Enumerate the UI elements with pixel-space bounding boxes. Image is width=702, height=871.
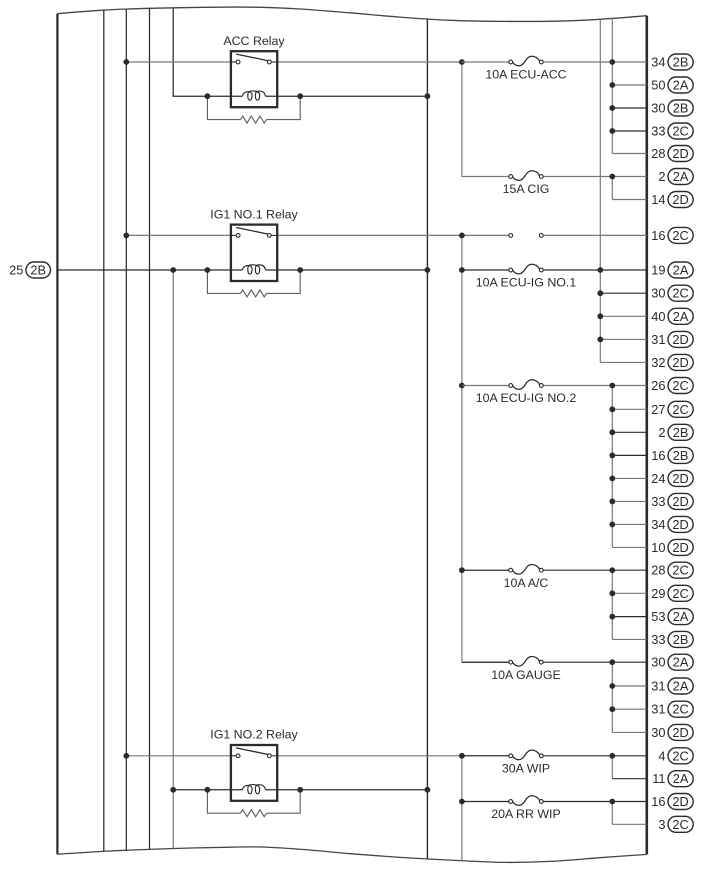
fuse 10A ECU-ACC value label — [485, 68, 566, 82]
node branch junction 34 2D — [609, 522, 615, 528]
node IG1 NO.1 output junction — [459, 233, 465, 239]
svg-text:24: 24 — [651, 471, 665, 486]
pin 2 2A label — [658, 169, 693, 185]
svg-text:10A A/C: 10A A/C — [504, 576, 549, 590]
svg-text:2D: 2D — [672, 517, 688, 532]
svg-text:10A ECU-IG NO.2: 10A ECU-IG NO.2 — [476, 391, 577, 405]
wire IG1 NO.2 switch input (bus2 to relay) — [126, 755, 231, 757]
svg-text:2D: 2D — [672, 471, 688, 486]
svg-text:11: 11 — [652, 771, 665, 786]
svg-text:2C: 2C — [672, 563, 688, 578]
wire ECU-IG NO.2 fuse feed stub — [462, 385, 509, 387]
node branch junction 53 2A — [609, 614, 615, 620]
node branch junction 33 2D — [609, 499, 615, 505]
node branch junction 29 2C — [609, 590, 615, 596]
svg-text:30: 30 — [651, 725, 665, 740]
wire pin 31 2C branch — [612, 708, 647, 710]
svg-text:30A WIP: 30A WIP — [502, 761, 550, 775]
svg-text:27: 27 — [651, 402, 665, 417]
svg-text:30: 30 — [651, 101, 665, 116]
fuse 15A CIG value label — [503, 182, 550, 196]
pin 14 2D label — [651, 192, 693, 208]
node IG1 NO.1 coil on return bus — [425, 267, 431, 273]
node branch junction 16 2B — [609, 453, 615, 459]
svg-text:20A RR WIP: 20A RR WIP — [491, 807, 561, 821]
svg-text:2C: 2C — [672, 702, 688, 717]
svg-text:2C: 2C — [672, 402, 688, 417]
node IG1 resistor left junction — [205, 267, 211, 273]
wire 10A GAUGE fuse feed stub — [462, 661, 509, 663]
svg-text:2B: 2B — [673, 101, 689, 116]
wire 10A ECU-IG NO.1 fuse output to connector — [543, 269, 647, 271]
pin 19 2A label — [651, 262, 693, 278]
svg-text:2D: 2D — [672, 355, 688, 370]
wire branch vertical B (ECU-ACC outputs, from top edge) — [611, 18, 613, 153]
connector pair (IG1 NO.1 output, row 16 2C) — [509, 234, 543, 238]
wire coil return bus (middle vertical) — [426, 19, 428, 859]
svg-text:2C: 2C — [672, 817, 688, 832]
svg-text:2A: 2A — [673, 309, 689, 324]
wire pin 30 2D branch — [612, 731, 647, 733]
wire pin 14 2D branch — [612, 199, 647, 201]
wire pin 28 2D branch — [612, 153, 647, 155]
svg-text:2C: 2C — [672, 124, 688, 139]
node IG1 NO.2 switch tap on bus 2 — [123, 753, 129, 759]
pin 34 2B label — [651, 54, 693, 70]
svg-text:16: 16 — [651, 448, 665, 463]
svg-text:16: 16 — [651, 228, 665, 243]
resistor across IG1 NO.1 Relay coil — [207, 270, 300, 297]
svg-text:33: 33 — [651, 632, 665, 647]
svg-text:2: 2 — [658, 169, 665, 184]
wire row 16 2C connector to border — [543, 234, 647, 236]
wire 10A ECU-IG NO.2 fuse output to connector — [543, 385, 647, 387]
wire IG1 NO.2 coil to coil-return bus — [266, 789, 428, 791]
wire branch vertical ECU-IG NO.2 outputs — [611, 386, 613, 548]
node fuse output tap 30 2A — [609, 659, 615, 665]
svg-text:2D: 2D — [672, 725, 688, 740]
svg-text:26: 26 — [651, 378, 665, 393]
node branch junction 24 2D — [609, 476, 615, 482]
svg-text:2D: 2D — [672, 794, 688, 809]
node fuse output tap 2 2A — [609, 174, 615, 180]
wire IG1 NO.2 switch output (relay to fuse feed) — [277, 755, 462, 757]
wire pin 11 2A branch — [612, 778, 647, 780]
node fuse output tap 28 2C — [609, 567, 615, 573]
svg-text:IG1 NO.2 Relay: IG1 NO.2 Relay — [210, 728, 298, 742]
relay IG1 NO.2 Relay coil — [242, 785, 265, 794]
svg-text:29: 29 — [651, 586, 665, 601]
resistor across ACC Relay coil — [207, 96, 300, 123]
svg-text:31: 31 — [651, 332, 665, 347]
svg-text:2: 2 — [658, 425, 665, 440]
fuse 10A A/C — [509, 565, 543, 575]
node branch junction 40 2A — [597, 313, 603, 319]
wire IG1 NO.1 switch output to pin 16 connector — [277, 234, 509, 236]
svg-text:2B: 2B — [30, 262, 46, 277]
svg-text:10A ECU-ACC: 10A ECU-ACC — [485, 68, 566, 82]
wire bus4 to IG1 NO.2 coil — [173, 789, 242, 791]
wire pin 3 2C branch — [612, 823, 647, 825]
node branch junction 31 2D — [597, 337, 603, 343]
wire pin 2 2B branch — [612, 431, 647, 433]
wire pin 29 2C branch — [612, 592, 647, 594]
svg-text:19: 19 — [651, 263, 665, 278]
node branch junction 31 2C — [609, 706, 615, 712]
wire ACC switch input (bus2 to relay) — [126, 61, 231, 63]
svg-text:2B: 2B — [673, 632, 689, 647]
wire IG1 NO.2 output vertical (feeds wiper fuses) — [461, 756, 463, 861]
node IG1 NO.2 coil on return bus — [425, 787, 431, 793]
node branch junction 27 2C — [609, 406, 615, 412]
wire pin 24 2D branch — [612, 477, 647, 479]
svg-text:33: 33 — [651, 124, 665, 139]
pin 32 2D label — [651, 354, 693, 370]
wire 10A ECU-ACC fuse output to connector — [543, 61, 647, 63]
svg-text:2A: 2A — [673, 771, 689, 786]
svg-text:30: 30 — [651, 286, 665, 301]
node ACC resistor right junction — [297, 93, 303, 99]
pin 50 2A label — [651, 77, 693, 93]
wire branch vertical 30A WIP outputs — [611, 756, 613, 779]
node 10A A/C fuse feed — [459, 567, 465, 573]
svg-text:2B: 2B — [673, 448, 689, 463]
node IG1 resistor right junction — [297, 787, 303, 793]
svg-text:2A: 2A — [673, 655, 689, 670]
svg-text:30: 30 — [651, 655, 665, 670]
svg-text:2D: 2D — [672, 146, 688, 161]
wire 10A GAUGE fuse output to connector — [543, 661, 647, 663]
relay IG1 NO.1 Relay coil — [242, 265, 265, 274]
node ECU-IG NO.1 fuse feed — [459, 267, 465, 273]
pin 31 2C label — [651, 701, 693, 717]
wire branch vertical 15A CIG outputs — [611, 177, 613, 200]
wire pin 33 2D branch — [612, 500, 647, 502]
fuse 10A A/C value label — [504, 576, 549, 590]
wire pin 30 2B branch — [612, 107, 647, 109]
pin 16 2C label — [651, 227, 693, 243]
wire branch vertical A (ECU-IG NO.1 outputs, from top edge) — [599, 19, 601, 362]
svg-text:2B: 2B — [673, 425, 689, 440]
wire pin 40 2A branch — [600, 315, 647, 317]
wire bus 4 upper segment (ACC coil feed) — [173, 8, 242, 96]
wire branch vertical 20A RR WIP outputs — [611, 802, 613, 825]
relay ACC Relay label — [223, 34, 285, 48]
pin 11 2A label — [652, 771, 693, 787]
pin 31 2A label — [651, 678, 693, 694]
svg-text:53: 53 — [651, 609, 665, 624]
svg-text:3: 3 — [658, 817, 665, 832]
svg-text:4: 4 — [658, 748, 665, 763]
svg-text:2A: 2A — [673, 78, 689, 93]
svg-text:33: 33 — [651, 494, 665, 509]
wire bus 2 (relay switch supply) — [125, 9, 127, 850]
fuse 20A RR WIP — [509, 796, 543, 806]
pin 27 2C label — [651, 401, 693, 417]
svg-text:2D: 2D — [672, 332, 688, 347]
node ACC switch tap on bus 2 — [123, 59, 129, 65]
node branch junction 30 2C — [597, 290, 603, 296]
relay IG1 NO.2 Relay switch contacts — [231, 748, 277, 758]
svg-text:15A CIG: 15A CIG — [503, 182, 550, 196]
node ACC resistor left junction — [205, 93, 211, 99]
pin 30 2A label — [651, 654, 693, 670]
fuse 10A ECU-IG NO.1 — [509, 264, 543, 274]
svg-text:2B: 2B — [673, 55, 689, 70]
relay IG1 NO.1 Relay box — [231, 225, 277, 281]
svg-text:2D: 2D — [672, 494, 688, 509]
wire pin 33 2C branch — [612, 130, 647, 132]
node fuse output tap 19 2A — [597, 267, 603, 273]
resistor across IG1 NO.2 Relay coil — [207, 790, 300, 817]
svg-text:34: 34 — [651, 517, 665, 532]
wire ECU-IG NO.1 fuse feed stub — [462, 269, 509, 271]
relay ACC Relay coil — [242, 91, 265, 100]
svg-text:28: 28 — [651, 146, 665, 161]
node 20A RR WIP fuse feed — [459, 799, 465, 805]
pin 30 2C label — [651, 285, 693, 301]
pin 16 2B label — [651, 447, 693, 463]
svg-text:16: 16 — [651, 794, 665, 809]
pin 30 2B label — [651, 100, 693, 116]
wire 20A RR WIP fuse feed stub — [462, 801, 509, 803]
pin 31 2D label — [651, 331, 693, 347]
svg-text:25: 25 — [9, 262, 23, 277]
svg-text:10A GAUGE: 10A GAUGE — [491, 668, 561, 682]
wire pin 31 2A branch — [612, 685, 647, 687]
wire 10A A/C fuse feed stub — [462, 569, 509, 571]
wire pin 50 2A branch — [612, 84, 647, 86]
wire 10A ECU-ACC fuse feed stub — [462, 61, 509, 63]
pin 33 2D label — [651, 493, 693, 509]
svg-text:2A: 2A — [673, 609, 689, 624]
pin 29 2C label — [651, 585, 693, 601]
relay IG1 NO.2 Relay box — [231, 745, 277, 801]
pin 2 2B label — [658, 424, 693, 440]
pin 3 2C label — [658, 816, 693, 832]
fuse 10A ECU-IG NO.2 — [509, 380, 543, 390]
node 25-2B feed on bus 4 — [170, 267, 176, 273]
pin 40 2A label — [651, 308, 693, 324]
node IG1 NO.2 coil feed on bus 4 — [170, 787, 176, 793]
wire 20A RR WIP fuse output to connector — [543, 801, 647, 803]
svg-text:2C: 2C — [672, 748, 688, 763]
pin 24 2D label — [651, 470, 693, 486]
node ECU-IG NO.2 fuse feed — [459, 383, 465, 389]
svg-text:32: 32 — [651, 355, 665, 370]
node IG1 resistor right junction — [297, 267, 303, 273]
pin 4 2C label — [658, 748, 693, 764]
wire pin 16 2B branch — [612, 454, 647, 456]
fuse 10A GAUGE value label — [491, 668, 561, 682]
wire pin 53 2A branch — [612, 616, 647, 618]
pin 16 2D label — [651, 794, 693, 810]
svg-text:2C: 2C — [672, 586, 688, 601]
wire pin 30 2C branch — [600, 292, 647, 294]
svg-text:2A: 2A — [673, 679, 689, 694]
wire 15A CIG fuse output to connector — [543, 176, 647, 178]
wire pin 32 2D branch — [600, 361, 647, 363]
node branch junction 33 2C — [609, 128, 615, 134]
wire pin 31 2D branch — [600, 338, 647, 340]
node IG1 NO.2 output junction — [459, 753, 465, 759]
relay IG1 NO.2 Relay label — [210, 728, 298, 742]
wire 10A A/C fuse output to connector — [543, 569, 647, 571]
relay ACC Relay switch contacts — [231, 54, 277, 64]
node branch junction 50 2A — [609, 82, 615, 88]
wire pin 10 2D branch — [612, 546, 647, 548]
wire pin 34 2D branch — [612, 523, 647, 525]
fuse 30A WIP — [509, 750, 543, 760]
svg-text:40: 40 — [651, 309, 665, 324]
fuse 10A GAUGE — [509, 657, 543, 667]
wire bus 4 lower segment (25-2B feed to IG1 NO.2 coil) — [172, 270, 174, 849]
pin 28 2D label — [651, 146, 693, 162]
node fuse output tap 16 2D — [609, 799, 615, 805]
svg-text:2A: 2A — [673, 263, 689, 278]
pin 33 2C label — [651, 123, 693, 139]
fuse 30A WIP value label — [502, 761, 550, 775]
svg-text:2A: 2A — [673, 169, 689, 184]
svg-text:31: 31 — [651, 679, 665, 694]
wire 30A WIP fuse output to connector — [543, 755, 647, 757]
svg-text:14: 14 — [651, 192, 665, 207]
wire IG1 NO.1 switch input (bus2 to relay) — [126, 234, 231, 236]
svg-text:2C: 2C — [672, 286, 688, 301]
wire pin 27 2C branch — [612, 408, 647, 410]
wire terminal 25 2B feed (left border through coil) — [57, 269, 427, 271]
node fuse output tap 34 2B — [609, 59, 615, 65]
svg-text:ACC Relay: ACC Relay — [223, 34, 285, 48]
pin 26 2C label — [651, 378, 693, 394]
wire bus 1 (vertical) — [103, 10, 105, 851]
fuse 10A ECU-ACC — [509, 56, 543, 66]
node branch junction 30 2B — [609, 105, 615, 111]
node ACC output junction — [459, 59, 465, 65]
node fuse output tap 26 2C — [609, 383, 615, 389]
node IG1 NO.1 switch tap on bus 2 — [123, 233, 129, 239]
svg-text:2D: 2D — [672, 540, 688, 555]
wire 30A WIP fuse feed stub — [462, 755, 509, 757]
svg-text:2C: 2C — [672, 228, 688, 243]
fuse 15A CIG — [509, 171, 543, 181]
pin 33 2B label — [651, 631, 693, 647]
svg-text:2C: 2C — [672, 378, 688, 393]
pin 30 2D label — [651, 724, 693, 740]
svg-text:10A ECU-IG NO.1: 10A ECU-IG NO.1 — [476, 276, 577, 290]
svg-text:10: 10 — [651, 540, 665, 555]
wire pin 33 2B branch — [612, 638, 647, 640]
wire branch vertical 10A GAUGE outputs — [611, 662, 613, 732]
pin 28 2C label — [651, 562, 693, 578]
fuse 10A ECU-IG NO.1 value label — [476, 276, 577, 290]
svg-text:34: 34 — [651, 55, 665, 70]
wire branch vertical 10A A/C outputs — [611, 570, 613, 639]
svg-text:50: 50 — [651, 78, 665, 93]
terminal 25 2B label — [9, 262, 50, 278]
node branch junction 31 2A — [609, 683, 615, 689]
wire bus 3 (vertical) — [149, 8, 151, 849]
wire ACC output drop to 15A CIG fuse — [462, 62, 509, 177]
svg-text:31: 31 — [651, 702, 665, 717]
svg-text:28: 28 — [651, 563, 665, 578]
node branch junction 2 2B — [609, 429, 615, 435]
pin 10 2D label — [651, 539, 693, 555]
wire ACC coil to coil-return bus — [266, 95, 428, 97]
node fuse output tap 4 2C — [609, 753, 615, 759]
relay IG1 NO.1 Relay label — [210, 207, 298, 221]
pin 53 2A label — [651, 609, 693, 625]
relay IG1 NO.1 Relay switch contacts — [231, 228, 277, 238]
fuse 20A RR WIP value label — [491, 807, 561, 821]
pin 34 2D label — [651, 516, 693, 532]
fuse 10A ECU-IG NO.2 value label — [476, 391, 577, 405]
wire IG1 NO.1 output vertical (feeds IG fuses) — [462, 235, 509, 662]
relay ACC Relay box — [231, 51, 277, 107]
svg-text:IG1 NO.1 Relay: IG1 NO.1 Relay — [210, 207, 298, 221]
node IG1 resistor left junction — [205, 787, 211, 793]
wire ACC switch output (relay to fuse feed) — [277, 61, 462, 63]
svg-text:2D: 2D — [672, 192, 688, 207]
node ACC coil on return bus — [425, 93, 431, 99]
